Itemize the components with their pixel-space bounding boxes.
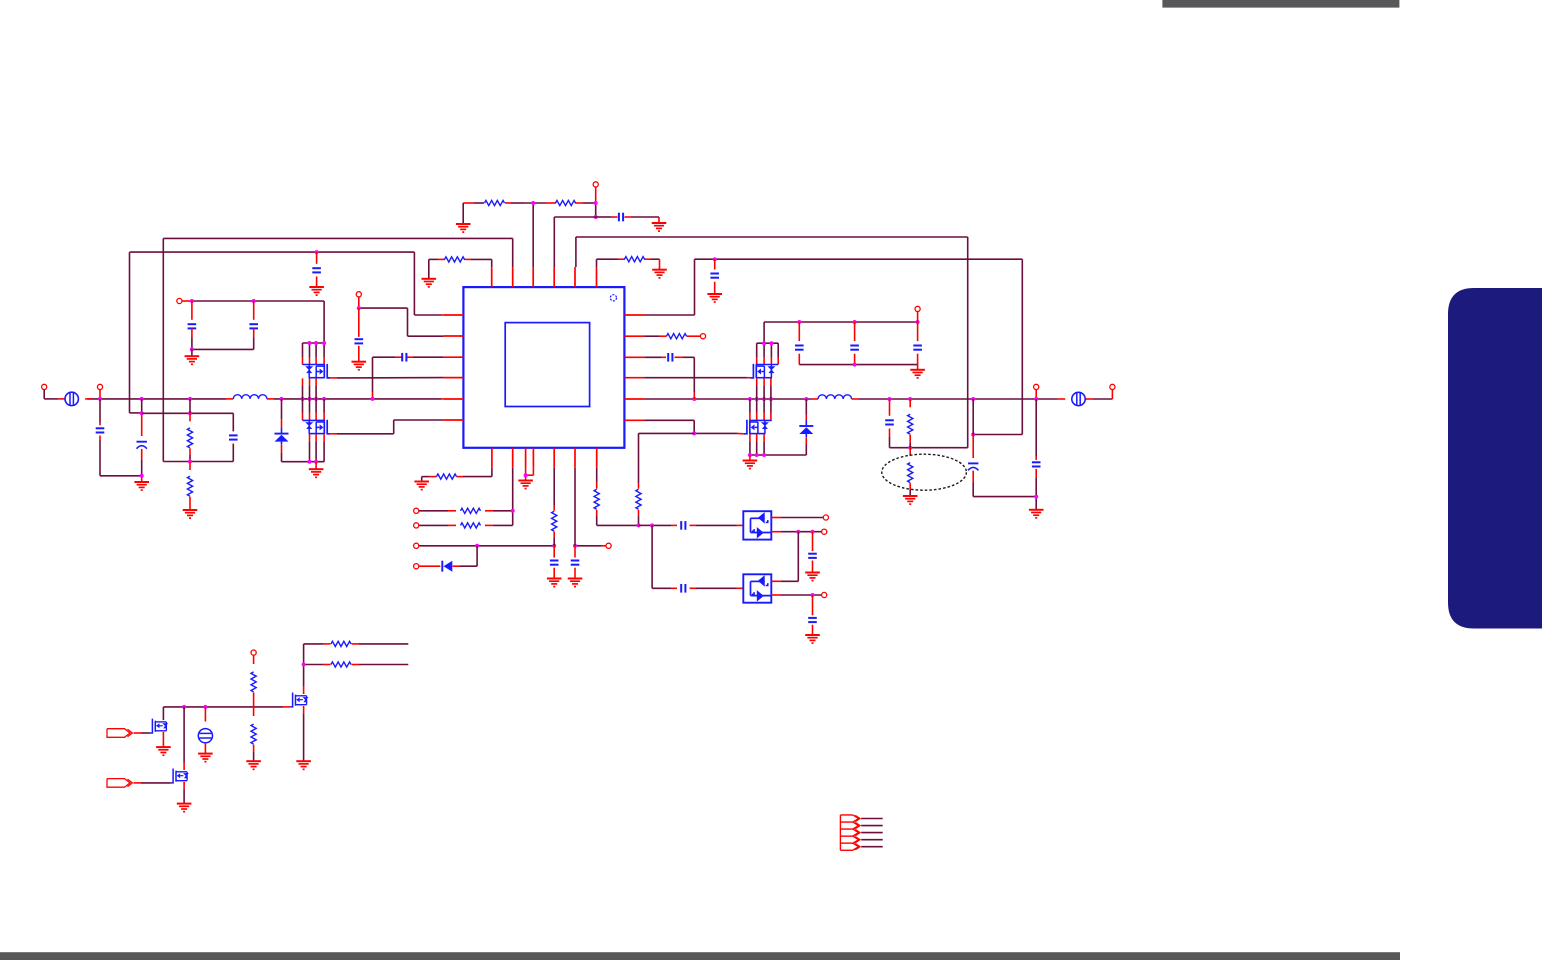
junction row3 a	[475, 544, 479, 548]
bus wire B1 right	[576, 237, 968, 448]
wire U2 out1	[771, 517, 823, 519]
node J3 circle	[1110, 384, 1115, 389]
capacitor C14	[913, 322, 922, 365]
wire divider bottom	[163, 461, 233, 463]
capacitor C13	[850, 322, 859, 365]
wire Q2 gate	[330, 420, 443, 434]
wire Q7 drain	[183, 707, 185, 770]
junction cap row	[594, 215, 598, 219]
connector J5 wires	[861, 819, 883, 847]
wire pin T3 vert	[532, 203, 534, 267]
node row1 circle	[414, 508, 419, 513]
fuse F2	[1072, 392, 1085, 405]
transistor Q5	[290, 693, 308, 707]
port P1	[107, 729, 132, 738]
junction C9 bottom	[190, 347, 194, 351]
wire Q1 drain bus	[303, 343, 325, 364]
capacitor C19	[571, 546, 580, 579]
ground below Q4	[743, 455, 758, 469]
wire VCC node	[359, 297, 444, 336]
capacitor C21	[681, 584, 685, 593]
junction C7 top	[140, 411, 144, 415]
wire U2-U3 link	[771, 532, 798, 582]
wire R3 ground riser	[428, 259, 430, 278]
ground below Q2	[309, 462, 324, 478]
junctions Q2 bottom	[308, 460, 319, 464]
resistor R8	[908, 399, 913, 448]
resistor R11	[461, 508, 481, 513]
wires Q2 source	[310, 434, 325, 461]
capacitor C10	[249, 301, 258, 349]
node J4 circle	[1034, 384, 1039, 389]
ground below C2	[707, 294, 722, 302]
transistor Q1 (upper-left PFET)	[302, 364, 330, 378]
node U2 out1 circle	[823, 515, 828, 520]
junction out sense	[971, 433, 975, 437]
wire P1	[134, 732, 151, 734]
wires Q3-Q4 rail	[750, 378, 771, 420]
resistor R16	[331, 641, 351, 646]
junctions capblock top	[797, 320, 919, 324]
junction C10 top	[252, 299, 256, 303]
resistor R2	[556, 200, 576, 205]
capacitor C3 on B3	[312, 252, 321, 287]
wire R10 row	[422, 468, 492, 482]
wire U2 out2	[771, 531, 821, 533]
resistor R4	[625, 257, 645, 262]
junction VCC	[357, 306, 361, 310]
ground below R3	[422, 279, 437, 287]
wire Q1 gate	[330, 377, 443, 379]
ground below C18	[547, 579, 562, 587]
wire Q5 gate	[163, 706, 290, 708]
junction C7 bottom	[140, 474, 144, 478]
node J2 circle	[97, 384, 102, 389]
capacitor C17	[1032, 399, 1041, 510]
junctions Q3 bus	[762, 341, 773, 345]
wire VIN vertical	[595, 187, 597, 217]
junction capblock bottom	[853, 363, 857, 367]
resistor R5	[187, 399, 192, 462]
junction R17	[302, 663, 306, 667]
divider chain	[251, 650, 256, 761]
ground below C9	[185, 349, 200, 364]
ground below Q6	[156, 747, 171, 755]
wire boot cap right	[644, 357, 694, 399]
node capblock circle	[915, 306, 920, 311]
node VCC circle	[356, 292, 361, 297]
capacitor C11 boot	[668, 353, 672, 362]
resistor R14	[594, 468, 638, 526]
ground below C1	[652, 223, 667, 231]
wire C9-C10 bottom	[192, 348, 254, 350]
node row4 circle	[414, 564, 419, 569]
capacitor C18	[550, 546, 559, 579]
transistor Q4 (lower-right FET)	[744, 420, 772, 434]
junctions Q1 bus	[308, 341, 327, 345]
wire cap row lower	[652, 525, 743, 588]
wire row1	[419, 510, 513, 512]
capacitor C6	[96, 399, 142, 476]
IC U1 pins	[443, 267, 644, 468]
node VIN circle	[593, 182, 598, 187]
wire Q7 source	[183, 782, 185, 804]
connector J5	[840, 815, 860, 850]
wire J4	[1035, 390, 1037, 400]
ground below C17	[1029, 510, 1044, 518]
transistor Q2 (lower-left FET)	[302, 420, 330, 434]
junction divider	[188, 411, 192, 415]
wire divider top	[142, 412, 234, 414]
diode D2	[799, 399, 813, 455]
wire FB tap	[639, 433, 695, 483]
wire J2	[99, 390, 101, 399]
node row2 circle	[414, 523, 419, 528]
junction row3 c	[573, 544, 577, 548]
wire R1 left to ground	[462, 203, 464, 224]
wire U3 out2	[771, 594, 821, 596]
wire R4 row	[597, 259, 660, 270]
IC U1 body	[463, 287, 624, 448]
wire R3 row	[429, 259, 492, 267]
wire top res row	[463, 202, 596, 204]
capacitor C23	[808, 595, 817, 635]
wire cap row right	[596, 217, 659, 223]
inductor L1	[233, 395, 267, 399]
wire Q3 drain bus	[757, 343, 779, 364]
ground below thermistor	[903, 496, 918, 504]
capacitor C15	[885, 399, 968, 448]
wire Q5 source	[303, 706, 305, 761]
node R7 circle	[700, 334, 705, 339]
capacitor C7 polarized	[137, 399, 147, 482]
wire capblock top	[764, 322, 918, 343]
wire boot cap left	[373, 357, 444, 399]
junctions Q4 bottom	[748, 453, 766, 457]
wire Q4 gate	[644, 420, 744, 434]
resistor R15	[636, 483, 641, 525]
junction row1	[511, 509, 515, 513]
wire out sense	[973, 434, 1022, 436]
bus wire B1 left	[163, 238, 512, 461]
wire P2	[134, 782, 171, 784]
junction C9 top	[190, 299, 194, 303]
resistor R7	[667, 334, 687, 339]
battery symbol B1	[198, 707, 212, 754]
wire R7 row	[644, 335, 700, 337]
junction B2 cap	[713, 257, 717, 261]
junction divider bottom	[188, 460, 192, 464]
ground below C22	[805, 573, 820, 581]
wire Q1 top feed	[182, 301, 324, 343]
top-right gray header bar	[1162, 0, 1399, 8]
ground below C23	[805, 635, 820, 643]
wire R17 row	[304, 664, 409, 666]
wire J1	[43, 390, 45, 399]
junction gate row a	[182, 705, 186, 709]
capacitor C9	[188, 301, 197, 349]
ground below C3	[309, 287, 324, 295]
thermistor R9 in ellipse	[908, 448, 913, 496]
capacitor C1	[619, 213, 623, 222]
wire Q6 drain	[162, 707, 164, 720]
wire cap row left	[554, 217, 595, 267]
junction thermistor top	[908, 446, 912, 450]
port P2	[107, 779, 132, 788]
node J1 circle	[42, 384, 47, 389]
resistor R10	[437, 474, 457, 479]
wire capblock circle	[917, 312, 919, 323]
wire cap row upper	[639, 524, 744, 526]
junction gate row b	[203, 705, 207, 709]
capacitor C16 polarized	[968, 399, 1036, 497]
wire capblock bottom	[799, 365, 917, 370]
resistor R12	[461, 523, 481, 528]
ground below R1	[456, 224, 471, 232]
wire Q5 drain	[303, 644, 305, 694]
junction Q4 gate	[692, 431, 696, 435]
resistor R17	[331, 662, 351, 667]
capacitor C8	[229, 413, 238, 461]
dual diode pack U3	[743, 574, 771, 602]
ground below capblock	[910, 370, 925, 378]
rail right	[644, 390, 1112, 400]
node U3 out2 circle	[822, 592, 827, 597]
wire Q4 bottom	[750, 454, 806, 456]
ground below C19	[568, 579, 583, 587]
ground below C7	[134, 482, 149, 490]
capacitor C2 on B2	[710, 259, 719, 294]
ground below R10	[414, 482, 429, 490]
wire row3	[419, 545, 606, 547]
rail left input stub	[58, 398, 91, 400]
thermistor ellipse	[882, 454, 967, 490]
capacitor C12	[795, 322, 804, 365]
wires Q4 source	[750, 434, 764, 455]
resistor R3	[445, 257, 465, 262]
junction C17 bottom	[1034, 495, 1038, 499]
ground below C4	[352, 362, 367, 370]
wire row2	[419, 524, 513, 526]
transistor Q6	[150, 719, 168, 733]
junction caps branch	[650, 523, 654, 527]
node row3r circle	[606, 543, 611, 548]
node Q1 circle	[177, 298, 182, 303]
inductor L2	[818, 395, 852, 399]
wire pin R1	[644, 314, 694, 316]
capacitor C22	[808, 532, 817, 573]
diode D1	[275, 399, 325, 462]
bus wire B3	[130, 252, 415, 413]
junction U3b	[811, 593, 815, 597]
node U2 out2 circle	[822, 529, 827, 534]
wire pin EN	[512, 468, 514, 526]
ground below IC	[518, 481, 533, 489]
capacitor C20	[681, 521, 685, 530]
resistor R13	[552, 468, 557, 546]
rail junctions	[98, 397, 1038, 401]
wire pin L1	[414, 314, 443, 316]
wire pin SS	[574, 468, 576, 546]
fuse F1	[65, 392, 78, 405]
resistor R6	[187, 462, 192, 511]
wires Q1-Q2 rail	[303, 378, 325, 420]
ground below R4	[652, 270, 667, 278]
right navy side tab	[1448, 288, 1542, 629]
junction pins gnd	[524, 473, 528, 477]
transistor Q7	[171, 769, 189, 783]
wire pins gnd	[526, 468, 534, 481]
junction B3 cap	[315, 250, 319, 254]
wire Q3 gate	[644, 377, 750, 379]
transistor Q3 (upper-right PFET)	[750, 364, 778, 378]
rail left	[44, 398, 443, 400]
junction row3 b	[552, 544, 556, 548]
wire R16 row	[304, 643, 409, 645]
junction R2-VIN	[594, 201, 598, 205]
junction U2a	[796, 530, 800, 534]
ground below B1	[198, 754, 213, 762]
ground below Q5	[296, 761, 311, 769]
junction U2b	[811, 530, 815, 534]
capacitor C4 VCC	[355, 308, 364, 362]
ground below R6	[183, 510, 198, 518]
bottom gray footer bar	[0, 952, 1400, 960]
wire row4	[419, 546, 477, 566]
bus wire B2	[695, 259, 1023, 434]
junction R15 bottom	[637, 523, 641, 527]
ground below Q7	[177, 804, 192, 812]
node row3 circle	[414, 543, 419, 548]
dual diode pack U2	[743, 511, 771, 539]
capacitor C5 boot	[402, 353, 406, 362]
ground below divider	[246, 761, 261, 769]
junction pin T3	[531, 201, 535, 205]
diode D3	[442, 561, 452, 572]
resistor R1	[485, 200, 505, 205]
wire Q6 source	[162, 732, 164, 747]
